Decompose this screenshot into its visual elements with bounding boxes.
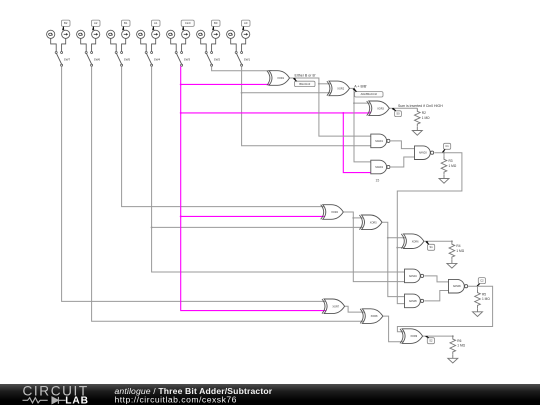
svg-text:S2: S2	[429, 339, 433, 343]
svg-text:Cin0: Cin0	[185, 21, 191, 25]
svg-text:A0orB0orCin0: A0orB0orCin0	[361, 92, 378, 96]
svg-text:SW3: SW3	[184, 57, 191, 61]
svg-text:SW7: SW7	[64, 57, 71, 61]
svg-text:C1: C1	[445, 144, 449, 148]
svg-text:NAND2: NAND2	[375, 166, 384, 169]
svg-text:XOR6: XOR6	[412, 240, 419, 243]
svg-text:B0orCin0: B0orCin0	[299, 82, 310, 86]
svg-text:S1: S1	[430, 245, 434, 249]
svg-text:C2: C2	[480, 279, 484, 283]
svg-text:XOR5: XOR5	[370, 221, 377, 224]
svg-text:1 MΩ: 1 MΩ	[457, 344, 465, 348]
svg-text:Either B or B': Either B or B'	[295, 74, 316, 78]
svg-text:SW2: SW2	[214, 57, 221, 61]
svg-text:NAND6: NAND6	[453, 285, 462, 288]
svg-text:R6: R6	[457, 339, 461, 343]
svg-text:1 MΩ: 1 MΩ	[482, 297, 490, 301]
svg-text:LAB: LAB	[65, 396, 89, 405]
svg-text:B2: B2	[64, 21, 68, 25]
svg-text:XOR4: XOR4	[331, 211, 338, 214]
svg-text:XOR3: XOR3	[377, 107, 384, 110]
svg-text:1 MΩ: 1 MΩ	[449, 164, 457, 168]
svg-text:R2: R2	[422, 111, 426, 115]
svg-text:R4: R4	[456, 244, 460, 248]
svg-text:R5: R5	[482, 292, 486, 296]
svg-text:B1: B1	[124, 21, 128, 25]
svg-text:S0: S0	[396, 112, 400, 116]
svg-text:SW5: SW5	[124, 57, 131, 61]
svg-text:http://circuitlab.com/cexsk76: http://circuitlab.com/cexsk76	[115, 395, 237, 405]
svg-text:A + B/B': A + B/B'	[354, 85, 367, 89]
svg-text:NAND3: NAND3	[419, 152, 428, 155]
svg-text:XOR8: XOR8	[371, 315, 378, 318]
svg-text:SW1: SW1	[244, 57, 251, 61]
svg-text:SW6: SW6	[94, 57, 101, 61]
svg-text:NAND1: NAND1	[375, 140, 384, 143]
svg-text:XOR7: XOR7	[332, 305, 339, 308]
svg-text:XOR2: XOR2	[337, 88, 344, 91]
svg-text:A2: A2	[94, 21, 98, 25]
svg-text:A0: A0	[244, 21, 248, 25]
svg-text:SW4: SW4	[154, 57, 161, 61]
svg-text:R3: R3	[449, 159, 453, 163]
svg-text:A1: A1	[154, 21, 158, 25]
svg-text:1 MΩ: 1 MΩ	[422, 116, 430, 120]
svg-text:Sum is inverted if Cin0 HIGH: Sum is inverted if Cin0 HIGH	[398, 104, 443, 108]
svg-text:1 MΩ: 1 MΩ	[456, 249, 464, 253]
svg-text:NAND4: NAND4	[409, 275, 418, 278]
svg-text:NAND5: NAND5	[409, 300, 418, 303]
svg-text:XOR9: XOR9	[410, 335, 417, 338]
svg-text:B0: B0	[214, 21, 218, 25]
svg-text:XOR1: XOR1	[277, 77, 284, 80]
svg-text:15: 15	[376, 178, 380, 182]
